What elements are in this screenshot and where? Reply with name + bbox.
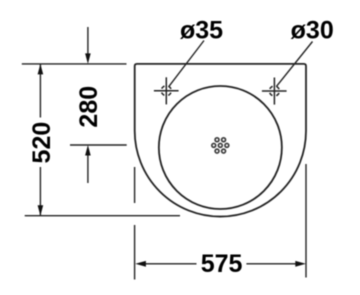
drain hole upper-left (215, 138, 219, 142)
top extension line (22, 63, 127, 65)
faucet hole right cross (262, 78, 287, 105)
faucet hole left cross (154, 77, 179, 104)
left extension line 575 upper segment (134, 167, 136, 203)
drain hole upper-right (222, 138, 226, 142)
dimension line 575 left segment (144, 263, 197, 265)
svg-text:ø30: ø30 (291, 17, 334, 45)
right extension line 575 (305, 164, 307, 278)
svg-text:520: 520 (28, 122, 56, 164)
arrowhead 575 right (pointing right) (295, 261, 306, 267)
dimension line 280 upper tail (87, 27, 89, 55)
svg-text:280: 280 (75, 86, 103, 128)
inner bowl circle (159, 86, 282, 209)
arrowhead 575 left (pointing left) (135, 261, 146, 267)
drain hole center (218, 143, 222, 147)
arrowhead 280 bottom (pointing up) (85, 145, 91, 156)
drain hole lower-right (222, 149, 226, 153)
middle extension line (bowl center) (70, 144, 127, 146)
leader line for ø30 (276, 42, 312, 87)
arrowhead 280 top (pointing down) (85, 53, 91, 64)
drain hole lower-left (215, 149, 219, 153)
svg-text:ø35: ø35 (180, 17, 223, 45)
washbasin outer rim outline (135, 64, 306, 217)
drain hole right (225, 143, 229, 147)
svg-text:575: 575 (201, 250, 243, 278)
dimension line 520 lower segment (39, 167, 41, 215)
left extension line 575 lower segment (134, 225, 136, 280)
drain hole left (212, 143, 216, 147)
dimension line 520 upper segment (39, 65, 41, 118)
arrowhead 520 top (38, 64, 44, 75)
leader line for ø35 (169, 41, 204, 87)
bottom extension line (basin bottom) (25, 215, 180, 217)
arrowhead 520 bottom (38, 205, 44, 216)
dimension line 280 lower tail (87, 155, 89, 184)
dimension line 575 right segment (246, 263, 296, 265)
